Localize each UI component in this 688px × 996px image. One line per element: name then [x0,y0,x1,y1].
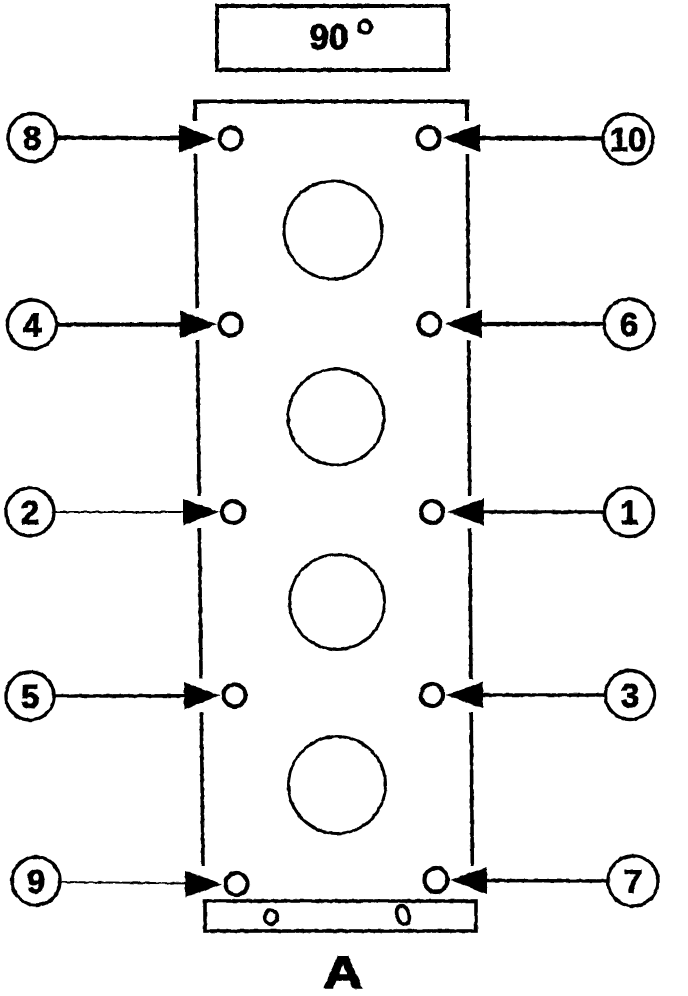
bolt hole row3 left [222,501,244,523]
torque step box (90 deg) [217,6,448,70]
cylinder bore 2 [288,369,384,465]
bolt hole row1 left [220,128,242,150]
cylinder head outline: top edge [195,102,467,122]
arrow to bolt 7 [450,867,608,894]
callout 6 [604,299,654,349]
bolt hole row1 right [418,127,440,149]
arrow to bolt 3 [446,682,606,709]
arrow to bolt 1 [447,499,605,526]
callout 10 [603,114,653,164]
svg-text:7: 7 [624,863,642,900]
flange hole left [265,910,278,924]
label 90 [310,18,349,57]
flange hole right [395,904,412,926]
svg-text:8: 8 [23,120,41,157]
callout 7 [608,856,658,906]
svg-text:9: 9 [27,863,45,900]
arrow to bolt 6 [445,310,604,338]
bolt hole row4 left [224,685,246,707]
bolt hole row5 right [425,868,448,892]
svg-text:3: 3 [621,677,639,714]
callout 9 [12,857,60,905]
bottom flange strip [205,901,476,931]
callout 2 [6,488,54,536]
cylinder head outline: left edge (dashed at bolt rows) [196,154,204,866]
bolt hole row2 left [220,314,242,336]
arrow to bolt 4 [56,311,217,339]
svg-text:6: 6 [620,306,638,343]
svg-text:4: 4 [23,307,42,344]
view label A [323,948,363,996]
callout 3 [606,671,655,720]
bolt hole row3 right [421,501,443,523]
bolt hole row2 right [419,313,441,335]
svg-text:A: A [323,948,363,996]
svg-text:1: 1 [620,494,638,531]
cylinder head outline: right edge (dashed at bolt rows) [467,154,472,866]
cylinder bore 3 [290,555,385,650]
callout 5 [6,672,54,720]
bolt hole row5 left [226,873,248,895]
svg-text:2: 2 [21,494,39,531]
callout 4 [8,300,57,349]
degree symbol [359,21,371,33]
svg-text:10: 10 [610,121,647,158]
arrow to bolt 10 [443,124,603,152]
svg-text:90: 90 [310,18,349,57]
svg-text:5: 5 [21,678,39,715]
arrow to bolt 2 [54,499,219,526]
cylinder bore 4 [289,737,386,834]
arrow to bolt 5 [54,682,220,710]
arrow to bolt 8 [56,125,216,153]
arrow to bolt 9 [60,871,222,898]
callout 1 [605,488,654,537]
callout 8 [8,114,56,162]
bolt hole row4 right [421,684,443,706]
cylinder bore 1 [284,181,382,279]
